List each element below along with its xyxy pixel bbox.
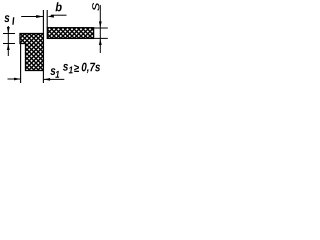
wire: extension line at left end of straight sheet (for gap b): [46, 10, 48, 28]
wire: bent sheet arm top and bottom edges extended left (for left s1 dim): [3, 34, 15, 44]
note: s1 >= 0,7s: [63, 63, 100, 74]
label b: [55, 2, 61, 11]
straight sheet (right plate, thickness s), hatched: [47, 28, 93, 39]
dimension b: right leader with left-pointing arrow and shelf: [47, 15, 66, 18]
label s1 (bottom): [50, 68, 59, 78]
dimension b: left tail with right-pointing arrow: [21, 15, 43, 18]
dimension s1 (left, arm thickness): vertical dimension line with inward arrows: [7, 26, 10, 56]
label s1 (top left): [4, 15, 14, 25]
dimension s1 (bottom): dimension line with inward arrows: [8, 78, 65, 81]
wire: bent sheet left end face extended down (for s1 dim): [20, 44, 22, 84]
wire: extension line at right edge of bent sheet (up for gap b, down for s1): [42, 10, 44, 83]
label s (rotated 90): [92, 3, 99, 11]
dimension s: vertical dimension line with inward arrows at right plate end: [99, 5, 102, 53]
wire: straight sheet top and bottom edges extended right (for s dim): [94, 28, 108, 38]
bent sheet (left piece, L-shaped cross-section, thickness s1), hatched: [20, 34, 43, 71]
